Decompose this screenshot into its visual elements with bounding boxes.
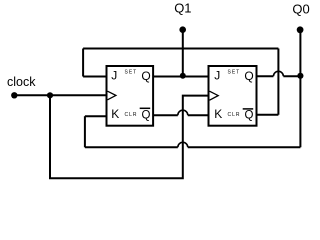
U2 clock triangle (210, 91, 219, 100)
node clock terminal (11, 92, 17, 98)
wire U1 Q-bar output to U2 K input (left part) (153, 114, 178, 116)
flip-flop U2 body (209, 66, 257, 126)
node Q0 terminal (297, 26, 304, 33)
svg-text:Q: Q (245, 109, 254, 121)
wire Q0-bar top feedback horizontal (83, 48, 278, 50)
wire Q0-bar feedback vertical right (277, 49, 279, 115)
svg-text:K: K (111, 107, 119, 121)
flip-flop U1 body (107, 66, 154, 126)
wire Q1 vertical from terminal to Q1 junction (182, 30, 184, 77)
junction Q1 node (180, 73, 186, 79)
wire Q0 vertical from terminal down to bottom feedback (299, 30, 301, 148)
wire J1 input stub (83, 76, 106, 78)
svg-text:Q1: Q1 (174, 0, 191, 15)
wire clock branch down-right-up to U2 CLK (50, 95, 209, 178)
svg-text:Q: Q (244, 69, 253, 83)
U1 clock triangle (108, 91, 116, 100)
svg-text:CLR: CLR (125, 112, 138, 118)
junction clock node (47, 92, 53, 98)
wire U1 Q-bar output to U2 K input (right part) (188, 114, 209, 116)
wire K1 input stub (85, 115, 107, 117)
wire J1 feedback vertical left (82, 49, 84, 77)
junction Q0 node (297, 73, 303, 79)
wire U2 Q-bar output stub (257, 114, 279, 116)
svg-text:clock: clock (7, 75, 36, 89)
wire hop over clock vertical (178, 110, 188, 115)
wire Q0 bottom feedback to U1 K (left part) (85, 146, 178, 148)
svg-text:J: J (214, 69, 220, 83)
svg-text:Q: Q (142, 109, 151, 121)
wire hop over Q0-bar feedback vertical (273, 71, 283, 76)
wire K1 loop vertical (84, 116, 86, 147)
wire Q0 bottom feedback to U1 K (right part) (188, 146, 301, 148)
svg-text:J: J (111, 69, 117, 83)
svg-text:CLR: CLR (228, 112, 241, 118)
wire clock horizontal to U1 CLK (14, 94, 106, 96)
wire U2 Q output (right part) (283, 75, 300, 77)
svg-text:K: K (214, 107, 222, 121)
wire hop over clock vertical (178, 142, 188, 147)
svg-text:SET: SET (228, 70, 241, 76)
wire U1 Q output to U2 J input (153, 76, 209, 78)
node Q1 terminal (179, 26, 186, 33)
svg-text:Q: Q (141, 69, 150, 83)
svg-text:SET: SET (125, 70, 138, 76)
wire U2 Q output (left part) (257, 75, 274, 77)
svg-text:Q0: Q0 (292, 2, 309, 17)
